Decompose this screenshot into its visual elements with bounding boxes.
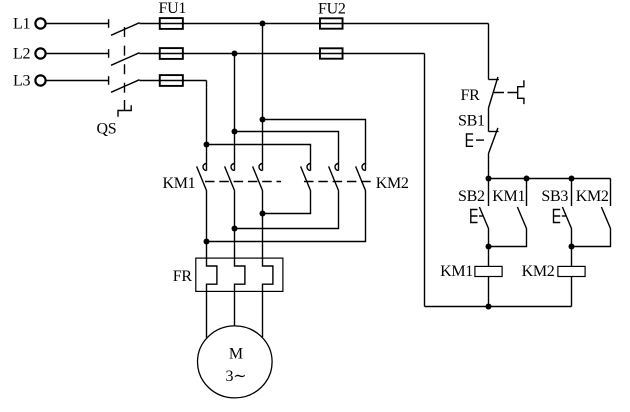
terminal L2 <box>13 45 46 62</box>
coil KM1 <box>440 263 502 280</box>
fuse FU1 pole 2 <box>160 48 183 59</box>
node tee line2 bottom <box>232 226 238 232</box>
node KM1 branch rejoin <box>486 244 492 250</box>
wire KM2 contact b bottom crossover to line2 <box>235 191 339 229</box>
QS mechanical link (dashed) <box>124 27 126 111</box>
switch QS pole 3 <box>109 76 140 92</box>
node bus KM1 aux <box>524 176 530 182</box>
wire L1 to QS <box>46 23 108 25</box>
wire SB1 to bus <box>488 154 490 179</box>
fuse FU2 pole 1 <box>320 18 343 28</box>
contactor KM1 main contact 2 <box>225 164 235 191</box>
switch QS pole 1 <box>109 19 140 35</box>
motor M <box>198 326 273 398</box>
terminal L1 <box>13 15 46 32</box>
node bus SB3 <box>569 176 575 182</box>
svg-text:KM1: KM1 <box>163 175 196 192</box>
wire control bus <box>489 178 611 180</box>
svg-text:SB1: SB1 <box>458 112 485 129</box>
svg-text:KM2: KM2 <box>522 263 555 280</box>
svg-text:M: M <box>229 345 243 362</box>
relay FR heater element 3 with wire <box>263 191 273 338</box>
wire L3 QS to line1 corner <box>140 80 207 82</box>
fuse FU2 pole 2 <box>320 48 343 58</box>
relay FR heater element 2 with wire <box>235 191 245 327</box>
relay FR NC contact (control) <box>489 77 499 108</box>
wire L1 QS to control corner <box>140 23 489 25</box>
node KM2 branch rejoin <box>569 244 575 250</box>
FR contact actuator dashed link <box>494 92 518 94</box>
contactor KM2 main contact 3 <box>356 164 366 191</box>
node junction L1/line3 <box>260 21 266 27</box>
contact KM1 aux NO <box>489 179 527 247</box>
button SB2 NO start-fwd <box>471 179 489 229</box>
wire crossover top to KM2 contact c <box>263 120 366 171</box>
svg-text:FU2: FU2 <box>318 1 346 18</box>
contactor KM1 main contact 3 <box>253 164 263 191</box>
svg-text:KM2: KM2 <box>376 175 409 192</box>
svg-text:L3: L3 <box>13 72 30 89</box>
wire KM2 contact a bottom crossover to line3 <box>263 191 311 214</box>
KM1 mechanical link (dashed) <box>205 181 281 183</box>
coil KM2 <box>522 263 585 280</box>
QS handle <box>118 105 131 117</box>
wire SB2 to KM1 coil <box>488 229 490 267</box>
node tee line1 top <box>204 142 210 148</box>
wire control return from L2 <box>424 54 426 307</box>
wire control feed from L1 corner down <box>488 24 490 80</box>
node tee line3 bottom <box>260 211 266 217</box>
wire SB3 to KM2 coil <box>571 229 573 267</box>
relay FR heater element 1 with wire <box>207 191 217 338</box>
wire phase line3 vertical upper <box>262 24 264 171</box>
contactor KM1 main contact 1 <box>197 164 207 191</box>
wire phase line2 vertical upper <box>234 54 236 171</box>
svg-text:3∼: 3∼ <box>225 368 246 385</box>
wire L2 to QS <box>46 53 108 55</box>
switch QS pole 2 <box>109 49 140 65</box>
node tee line3 top <box>260 117 266 123</box>
node junction L2/line2 <box>232 51 238 57</box>
svg-text:SB3: SB3 <box>541 188 568 205</box>
wire KM1 coil to rail <box>488 277 490 307</box>
fuse FU1 pole 1 <box>160 18 183 29</box>
svg-text:L1: L1 <box>13 15 30 32</box>
wire FR contact to SB1 <box>488 108 490 132</box>
button SB1 NC stop <box>467 128 499 154</box>
node bus SB2 <box>486 176 492 182</box>
svg-text:QS: QS <box>97 121 117 138</box>
KM2 mechanical link (dashed) <box>304 181 373 183</box>
node tee line1 bottom <box>204 239 210 245</box>
svg-text:L2: L2 <box>13 45 30 62</box>
button SB3 NO start-rev <box>554 179 572 229</box>
svg-text:FU1: FU1 <box>159 0 187 17</box>
wire L2 QS to return corner <box>140 53 425 55</box>
svg-text:KM2: KM2 <box>576 188 609 205</box>
svg-text:FR: FR <box>173 268 193 285</box>
svg-text:FR: FR <box>461 87 481 104</box>
contact KM2 aux NO <box>572 179 611 247</box>
svg-text:KM1: KM1 <box>492 188 525 205</box>
contactor KM2 main contact 2 <box>329 164 339 191</box>
fuse FU1 pole 3 <box>160 75 183 86</box>
FR thermal actuator hook <box>518 80 524 104</box>
svg-text:SB2: SB2 <box>458 188 485 205</box>
svg-text:KM1: KM1 <box>440 263 473 280</box>
node rail KM1 <box>486 304 492 310</box>
wire crossover top to KM2 contact a <box>207 145 311 171</box>
terminal L3 <box>13 72 46 89</box>
wire KM2 contact c bottom crossover to line1 <box>207 191 366 242</box>
node tee line2 top <box>232 129 238 135</box>
relay FR box <box>196 258 283 291</box>
wire KM2 coil to rail <box>571 277 573 307</box>
wire L3 to QS <box>46 80 108 82</box>
contactor KM2 main contact 1 <box>301 164 311 191</box>
wire phase line1 vertical upper <box>206 81 208 171</box>
wire crossover top to KM2 contact b <box>235 132 339 171</box>
wire bottom rail <box>425 306 572 308</box>
